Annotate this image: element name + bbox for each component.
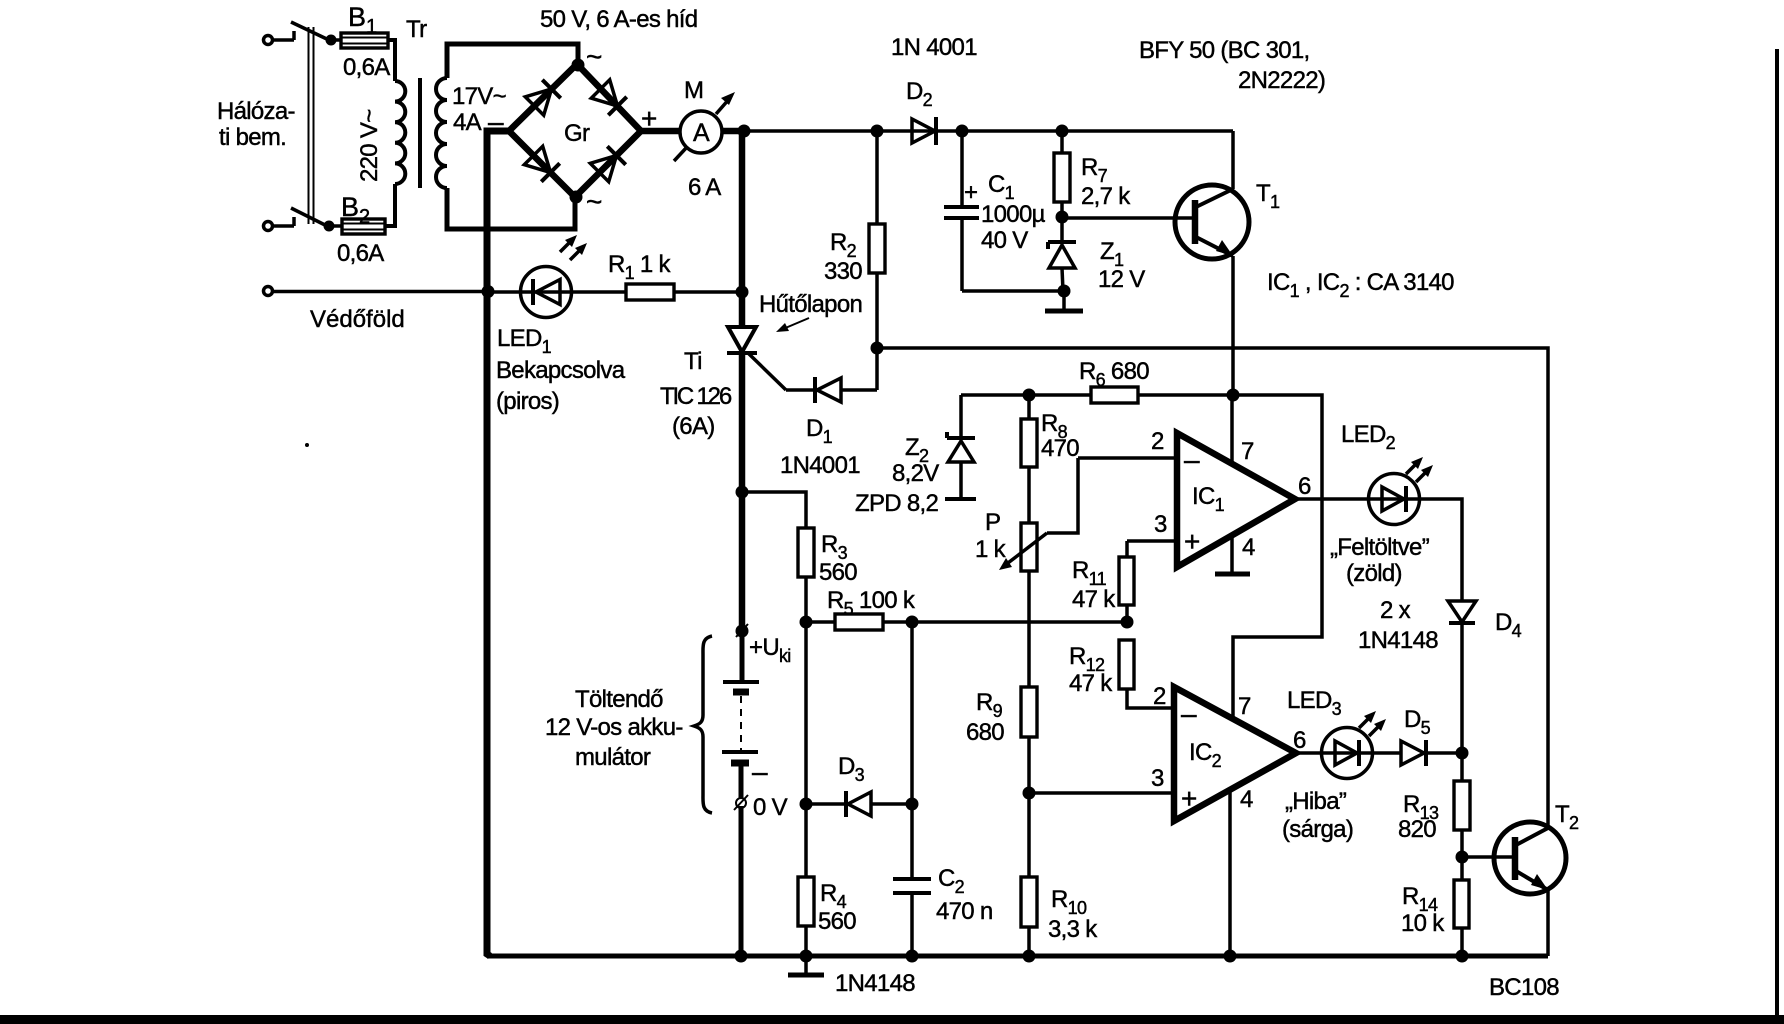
svg-text:7: 7 <box>1241 438 1254 465</box>
bottom scan bar <box>0 1015 1784 1024</box>
wire R11 to IC1 pin3 <box>1127 539 1177 543</box>
node D3 right <box>906 798 919 811</box>
node R4 bus <box>800 950 813 963</box>
bottom bus <box>487 954 1548 959</box>
node R5 right / D3 branch <box>906 616 919 629</box>
wire feedback loop to IC2 pin7 <box>1233 395 1322 719</box>
svg-text:3: 3 <box>1151 765 1164 792</box>
transformer secondary winding <box>436 78 447 188</box>
svg-text:220 V~: 220 V~ <box>356 109 383 182</box>
transistor T2 <box>1494 822 1566 894</box>
svg-text:ZPD 8,2: ZPD 8,2 <box>855 490 938 517</box>
svg-text:12 V: 12 V <box>1098 266 1145 293</box>
svg-text:820: 820 <box>1398 816 1436 843</box>
T2 emitter to bus <box>1546 890 1550 956</box>
svg-text:(sárga): (sárga) <box>1282 816 1353 843</box>
svg-text:M: M <box>684 77 703 104</box>
node IC1 pin7 junction <box>1227 389 1240 402</box>
mains input terminal bottom <box>264 222 295 231</box>
node R8 top <box>1023 389 1036 402</box>
wire IC2 out to LED3 <box>1296 751 1322 755</box>
svg-text:2,7 k: 2,7 k <box>1081 183 1131 210</box>
capacitor C1 <box>944 131 1064 291</box>
svg-text:0,6A: 0,6A <box>337 240 384 267</box>
node bridge bottom corner <box>570 191 583 204</box>
node earth-line left bus <box>482 285 495 298</box>
resistor R4 <box>798 804 814 956</box>
svg-text:„Hiba”: „Hiba” <box>1285 788 1347 815</box>
wire down to D3 row <box>910 622 914 804</box>
zener Z1 <box>1048 217 1076 291</box>
svg-text:4: 4 <box>1242 534 1255 561</box>
svg-text:6: 6 <box>1298 473 1311 500</box>
0V terminal <box>734 795 748 810</box>
node IC2 pin4 bus <box>1224 950 1237 963</box>
svg-text:~: ~ <box>586 186 602 217</box>
label Hálózati bem. <box>217 98 295 151</box>
svg-text:6 A: 6 A <box>688 174 721 201</box>
thyristor bus vertical <box>739 131 746 327</box>
svg-text:680: 680 <box>966 719 1004 746</box>
svg-text:10 k: 10 k <box>1401 910 1445 937</box>
resistor R5 <box>806 614 1127 630</box>
stray dot <box>305 443 309 447</box>
svg-text:1N 4001: 1N 4001 <box>891 34 977 61</box>
wire bridge to ammeter <box>641 128 681 135</box>
wire mid rail to right <box>877 348 1548 829</box>
diode D4 <box>1448 601 1476 753</box>
ground below R4 <box>788 956 824 975</box>
svg-text:2N2222): 2N2222) <box>1238 67 1325 94</box>
svg-text:2: 2 <box>1153 683 1166 710</box>
svg-text:1N4148: 1N4148 <box>1358 627 1438 654</box>
switch pole B2 <box>291 208 329 227</box>
node bridge top corner <box>572 59 585 72</box>
svg-text:560: 560 <box>818 908 856 935</box>
transistor T1 <box>1175 185 1249 259</box>
resistor R12 <box>1119 640 1174 708</box>
svg-text:470 n: 470 n <box>936 898 993 925</box>
svg-text:Bekapcsolva: Bekapcsolva <box>496 357 626 384</box>
label 17V~ 4A <box>452 83 506 136</box>
label Hűtőlapon with arrow <box>759 291 862 332</box>
IC1 pin4 ground <box>1215 535 1250 574</box>
svg-text:P: P <box>985 509 1000 536</box>
node battery bus <box>735 950 748 963</box>
wire LED1 to R1 <box>571 290 626 294</box>
ammeter M <box>674 92 735 161</box>
svg-text:ti bem.: ti bem. <box>219 124 286 151</box>
svg-text:(zöld): (zöld) <box>1346 560 1402 587</box>
svg-text:Töltendő: Töltendő <box>575 686 663 713</box>
node T2 base junction <box>1456 851 1469 864</box>
resistor R10 <box>1021 793 1037 956</box>
svg-text:1000µ: 1000µ <box>981 201 1046 228</box>
svg-text:470: 470 <box>1041 435 1079 462</box>
svg-text:2: 2 <box>1151 428 1164 455</box>
wire P bottom to R9 <box>1027 571 1031 687</box>
svg-text:A: A <box>693 119 710 147</box>
svg-text:BFY 50 (BC 301,: BFY 50 (BC 301, <box>1139 37 1310 64</box>
resistor R8 <box>1021 395 1037 523</box>
svg-text:47 k: 47 k <box>1072 586 1116 613</box>
svg-text:50 V, 6 A-es híd: 50 V, 6 A-es híd <box>540 6 697 33</box>
left bus from bridge minus <box>487 131 509 956</box>
capacitor C2 <box>893 804 931 956</box>
svg-text:7: 7 <box>1238 693 1251 720</box>
resistor R2 <box>869 131 885 348</box>
diode D2 <box>912 117 936 145</box>
svg-text:560: 560 <box>819 559 857 586</box>
switch pole B1 <box>291 22 331 41</box>
wire junction to IC2 pin3 <box>1029 791 1174 795</box>
svg-text:Ti: Ti <box>684 348 702 375</box>
svg-text:1N4148: 1N4148 <box>835 970 915 997</box>
node main positive <box>738 125 751 138</box>
switch mechanical link <box>309 27 314 224</box>
svg-text:Tr: Tr <box>406 16 427 43</box>
node C2 bus <box>906 950 919 963</box>
svg-text:+: + <box>1184 526 1200 557</box>
svg-text:40 V: 40 V <box>981 227 1028 254</box>
diode D1 <box>786 348 877 403</box>
resistor R14 <box>1454 857 1469 956</box>
svg-text:–: – <box>1184 444 1200 475</box>
LED2 <box>1369 457 1434 525</box>
resistor R11 <box>1119 541 1134 622</box>
potentiometer P <box>999 458 1078 571</box>
earth terminal <box>264 287 489 296</box>
wire secondary bottom to bridge <box>447 188 575 229</box>
node R2 bottom junction <box>871 342 884 355</box>
IC2 pin4 wire <box>1228 789 1232 956</box>
wire secondary top to bridge <box>447 44 578 78</box>
wire main rail to T1 collector <box>744 129 1233 133</box>
resistor R13 <box>1454 753 1470 857</box>
node R2 top <box>871 125 884 138</box>
right frame line <box>1775 49 1779 1016</box>
wire IC1 out to LED2 <box>1295 497 1369 501</box>
svg-text:12 V-os akku-: 12 V-os akku- <box>545 714 683 741</box>
svg-text:(6A): (6A) <box>672 413 715 440</box>
LED3 <box>1322 711 1387 779</box>
svg-text:Gr: Gr <box>564 120 590 147</box>
thyristor bus to battery <box>739 353 746 631</box>
LED1 <box>521 235 588 318</box>
wire IC1 pin2 <box>1078 456 1177 460</box>
svg-text:3: 3 <box>1154 511 1167 538</box>
svg-text:4A: 4A <box>453 109 482 136</box>
svg-text:0 V: 0 V <box>753 794 788 821</box>
node D3 left <box>800 798 813 811</box>
resistor R9 <box>1021 687 1037 793</box>
resistor R3 <box>742 492 814 622</box>
node R10 bus <box>1023 950 1036 963</box>
thyristor Ti <box>727 327 786 390</box>
bridge diode lower-left <box>524 146 561 183</box>
svg-text:3,3 k: 3,3 k <box>1048 916 1098 943</box>
svg-text:8,2V: 8,2V <box>892 460 939 487</box>
node R14 bus <box>1456 950 1469 963</box>
node R5 left <box>800 616 813 629</box>
bridge diode upper-left <box>525 78 562 115</box>
brace battery <box>694 636 712 813</box>
fuse B1 <box>326 33 389 48</box>
T1 collector wire <box>1231 131 1235 189</box>
svg-text:+: + <box>964 179 977 206</box>
wire fuse B2 to primary <box>385 184 395 226</box>
IC1 pin7 stub <box>1230 395 1234 464</box>
svg-text:47 k: 47 k <box>1069 670 1113 697</box>
battery + node <box>736 624 749 638</box>
wire LED2 to D4 <box>1419 499 1462 601</box>
svg-text:1 k: 1 k <box>975 536 1007 563</box>
node C1 top <box>956 125 969 138</box>
svg-text:4: 4 <box>1240 786 1253 813</box>
wire base junction to T2 <box>1462 855 1515 859</box>
svg-text:330: 330 <box>824 258 862 285</box>
wire base junction to T1 <box>1062 216 1195 220</box>
svg-text:Védőföld: Védőföld <box>310 306 405 333</box>
svg-text:„Feltöltve”: „Feltöltve” <box>1330 534 1430 561</box>
svg-text:(piros): (piros) <box>496 388 559 415</box>
transformer core <box>418 78 422 188</box>
svg-text:–: – <box>752 756 768 787</box>
T1 emitter wire <box>1231 256 1235 395</box>
svg-text:Hálóza-: Hálóza- <box>217 98 295 125</box>
wire 0V to bottom bus <box>739 806 744 956</box>
battery cells <box>722 631 759 798</box>
diode D5 <box>1372 740 1462 766</box>
svg-text:0,6A: 0,6A <box>343 54 390 81</box>
node R9 R10 junction <box>1023 787 1036 800</box>
diode D3 <box>806 791 912 817</box>
node R7 top <box>1056 125 1069 138</box>
wire earth line to LED1 <box>488 290 521 294</box>
ground at Z1 <box>1045 291 1083 311</box>
op-amp IC1 <box>1177 433 1295 567</box>
node C1/Z1 bottom <box>1058 285 1071 298</box>
op-amp IC2 <box>1174 687 1296 821</box>
node T1 base junction <box>1056 211 1069 224</box>
resistor R1 <box>626 284 674 300</box>
zener Z2 <box>945 395 976 499</box>
svg-text:+: + <box>1181 783 1197 814</box>
wire ammeter to main node <box>722 128 747 135</box>
bridge diode upper-right <box>591 80 628 117</box>
wire R1 to bus <box>674 290 742 294</box>
svg-text:mulátor: mulátor <box>575 744 651 771</box>
wire R3 bus down <box>804 622 808 804</box>
svg-text:~: ~ <box>586 41 602 72</box>
svg-text:1N4001: 1N4001 <box>780 452 860 479</box>
svg-text:Hűtőlapon: Hűtőlapon <box>759 291 862 318</box>
mains input terminal top <box>264 36 295 45</box>
resistor R6 <box>1091 387 1138 403</box>
node R3 top junction <box>736 486 749 499</box>
fuse B2 <box>324 219 386 234</box>
resistor R7 <box>1054 131 1070 217</box>
wire fuse B1 to primary <box>388 40 395 81</box>
svg-text:–: – <box>1181 698 1197 729</box>
node LED row on thyristor bus <box>736 286 749 299</box>
svg-text:6: 6 <box>1293 727 1306 754</box>
node D5 D4 junction <box>1456 747 1469 760</box>
svg-text:2 x: 2 x <box>1380 597 1411 624</box>
bridge diode lower-right <box>590 145 627 182</box>
R6 rail <box>961 393 1233 397</box>
node R11 bottom junction <box>1121 616 1134 629</box>
svg-text:BC108: BC108 <box>1489 974 1559 1001</box>
svg-text:TIC 126: TIC 126 <box>660 383 732 410</box>
transformer primary winding <box>395 81 405 184</box>
bridge rectifier Gr diamond <box>509 64 641 197</box>
